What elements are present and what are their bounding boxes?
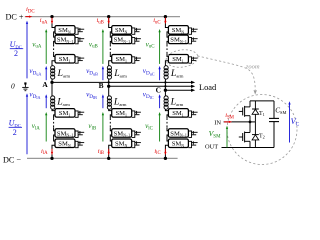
wire dashed continuation upper phase C [166,45,168,54]
submodule SM_N-1 upper arm phase C [168,35,188,44]
svg-text:0: 0 [11,82,15,91]
junction bridge mid node [249,121,252,124]
wire phase C upper bus [165,17,168,28]
wire bridge top rail [250,100,274,102]
wire SM_N-1 to SM_N lower phase A [54,135,55,141]
submodule SM_N-1 lower arm phase B [112,129,132,138]
current arrow i_uB [108,18,110,22]
inductor L_arm lower phase A [51,96,55,100]
current arrow i_lC [164,149,166,153]
submodule SM_N-1 upper arm phase A [55,35,75,44]
current arrow i_lB [108,149,110,153]
capacitor of SM_N lower arm phase C [188,141,191,147]
wire SM_N-1 to SM_N lower phase B [110,135,111,141]
voltage arrow v_DlA [45,97,47,108]
svg-text:DC +: DC + [6,13,24,22]
wire dashed continuation upper phase B [109,45,111,54]
wire SM_N to SM_N-1 upper phase B [110,32,111,37]
wire SM_1 to inductor upper phase C [165,61,168,66]
transistor T2 [239,136,243,138]
junction phase A bottom rail [50,157,53,160]
wire SM_N to DC- rail phase B [109,145,112,158]
current arrow i_SM [224,121,229,123]
voltage arrow v_uC [159,32,161,64]
wire DC- bottom rail [27,157,178,159]
junction phase C bottom rail [164,157,167,160]
wire node C to lower inductor [164,90,166,96]
svg-text:B: B [99,81,104,90]
submodule SM_N lower arm phase C [168,139,188,148]
junction node B [107,85,110,88]
capacitor of SM_1 lower arm phase B [132,111,135,117]
wire phase A upper bus [52,17,55,28]
wire to SM_N-1 lower phase C [167,127,168,131]
voltage arrow v_DuC [159,69,161,81]
wire inductor to node C [164,79,166,90]
junction phase B top rail [107,15,110,18]
wire to SM_N-1 lower phase B [110,127,111,131]
voltage arrow V_SM [226,128,228,147]
svg-text:2: 2 [14,49,18,58]
zoom bubble dashed circle [227,95,297,165]
junction blob bus C crossing line B [164,85,166,87]
voltage arrow v_lC [159,115,161,142]
svg-text:OUT: OUT [205,143,218,150]
wire OUT / bridge bottom rail [222,147,275,149]
voltage arrow v_DlC [159,97,161,108]
wire dashed continuation lower phase B [109,118,111,127]
inductor L_arm upper phase C [164,66,168,70]
junction blob bus B crossing line A [108,81,110,83]
submodule SM_1 lower arm phase B [112,109,132,118]
submodule SM_1 lower arm phase C [168,109,188,118]
submodule SM_N upper arm phase C [168,26,188,34]
svg-text:IN: IN [214,119,221,126]
voltage arrow v_lB [102,115,104,142]
wire SM_N to SM_N-1 upper phase C [167,32,168,37]
capacitor of SM_N-1 lower arm phase A [75,131,78,137]
wire SM_N-1 down upper phase B [110,41,111,45]
capacitor of SM_1 upper arm phase B [132,57,135,63]
current arrow i_uC [164,18,166,22]
wire dashed continuation lower phase A [53,118,55,127]
svg-text:T1: T1 [259,111,265,117]
svg-text:DC −: DC − [3,155,21,164]
capacitor of SM_N upper arm phase C [188,28,191,34]
voltage arrow UDC/2 upper [26,23,28,78]
wire inductor to SM_1 lower phase A [52,109,55,110]
inductor L_arm lower phase B [107,96,111,100]
inductor L_arm upper phase A [51,66,55,70]
ground [24,82,26,84]
wire inductor to node A [51,79,53,82]
wire node B to lower inductor [108,86,110,96]
wire to SM_1 upper phase A [54,53,55,56]
wire phase B output line [109,85,192,87]
voltage arrow v_uB [102,32,104,64]
submodule SM_N lower arm phase A [55,139,75,148]
wire SM_N-1 down upper phase C [167,41,168,45]
junction phase C top rail [164,15,167,18]
capacitor of SM_1 upper arm phase C [188,57,191,63]
wire to SM_1 upper phase C [167,53,168,56]
capacitor of SM_N lower arm phase A [75,141,78,147]
svg-text:T2: T2 [259,133,265,139]
capacitor of SM_N lower arm phase B [132,141,135,147]
wire dashed continuation lower phase C [166,118,168,127]
inductor L_arm upper phase B [107,66,111,70]
capacitor C_SM [273,101,275,119]
svg-text:C: C [156,85,161,94]
wire SM_N to DC- rail phase A [52,145,55,158]
junction blob bus C crossing line A [164,81,166,83]
wire SM_1 down lower phase A [54,115,55,119]
current arrow i_DC [26,16,30,18]
capacitor of SM_1 lower arm phase C [188,111,191,117]
wire SM_N-1 to SM_N lower phase C [167,135,168,141]
capacitor of SM_1 lower arm phase A [75,111,78,117]
voltage arrow v_DuB [102,69,104,81]
junction node C [164,89,167,92]
wire SM_1 down lower phase C [167,115,168,119]
wire inductor to SM_1 lower phase C [165,109,168,110]
svg-text:A: A [42,80,48,89]
submodule SM_N lower arm phase B [112,139,132,148]
wire DC+ top rail [25,16,180,18]
svg-text:zoom: zoom [245,63,260,70]
voltage arrow v_DlB [102,97,104,108]
wire SM_1 down lower phase B [110,115,111,119]
wire to SM_N-1 lower phase A [54,127,55,131]
wire inductor to SM_1 lower phase B [109,109,112,110]
capacitor of SM_N-1 upper arm phase B [132,37,135,43]
wire SM_N to SM_N-1 upper phase A [54,32,55,37]
capacitor of SM_N-1 upper arm phase A [75,37,78,43]
voltage arrow V_C [289,104,291,143]
voltage arrow v_DuA [45,69,47,81]
wire SM_1 to inductor upper phase A [52,61,55,66]
capacitor of SM_N upper arm phase B [132,28,135,34]
voltage arrow v_lA [45,115,47,142]
current arrow i_uA [51,18,53,22]
junction phase A top rail [50,15,53,18]
wire phase B upper bus [109,17,112,28]
voltage arrow v_uA [45,32,47,64]
inductor L_arm lower phase C [164,96,168,100]
wire IN [224,121,250,123]
svg-text:Load: Load [199,83,217,92]
submodule SM_1 lower arm phase A [55,109,75,118]
submodule SM_N upper arm phase A [55,26,75,34]
wire SM_N to DC- rail phase C [165,145,168,158]
zoom callout curve [198,56,256,90]
wire to SM_1 upper phase B [110,53,111,56]
capacitor of SM_N-1 upper arm phase C [188,37,191,43]
submodule SM_1 upper arm phase C [168,55,188,64]
wire bridge mid rail [250,121,255,123]
capacitor of SM_N upper arm phase A [75,28,78,34]
submodule SM_1 upper arm phase B [112,55,132,64]
junction phase B bottom rail [107,157,110,160]
transistor T1 [239,110,243,112]
wire SM_1 to inductor upper phase B [109,61,112,66]
submodule SM_1 upper arm phase A [55,55,75,64]
capacitor of SM_1 upper arm phase A [75,57,78,63]
wire dashed continuation upper phase A [53,45,55,54]
junction node A [50,81,53,84]
voltage arrow UDC/2 lower [26,96,28,154]
wire node A to lower inductor [51,82,53,96]
zoom ellipse around SM_1 of phase C [165,48,199,69]
capacitor of SM_N-1 lower arm phase B [132,131,135,137]
submodule SM_N upper arm phase B [112,26,132,34]
wire SM_N-1 down upper phase A [54,41,55,45]
wire phase C output line [165,89,191,91]
svg-text:2: 2 [13,128,17,137]
submodule SM_N-1 lower arm phase A [55,129,75,138]
submodule SM_N-1 lower arm phase C [168,129,188,138]
wire inductor to node B [108,79,110,86]
wire phase A output line [52,81,191,83]
current arrow i_lA [51,149,53,153]
capacitor of SM_N-1 lower arm phase C [188,131,191,137]
submodule SM_N-1 upper arm phase B [112,35,132,44]
